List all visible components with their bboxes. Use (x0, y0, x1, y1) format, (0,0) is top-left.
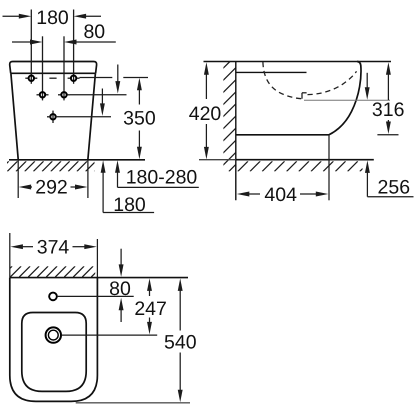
dim 316 bottom extension line (377, 134, 398, 136)
side wall hatch (120, 62, 351, 172)
plan right extension line (96, 239, 98, 278)
floor arrow for 180-280 (115, 160, 120, 173)
side body right curve (329, 62, 361, 135)
hole mid-left crosshair (37, 94, 41, 96)
plan drain outer circle (46, 327, 61, 342)
hole mid-right crosshair (58, 94, 62, 96)
side wall face line (235, 62, 237, 201)
front floor hatch (0, 161, 113, 171)
svg-text:292: 292 (35, 177, 68, 199)
svg-text:350: 350 (123, 108, 156, 130)
svg-text:180: 180 (36, 7, 69, 29)
front view floor line (9, 159, 145, 161)
dim 80 right arrow (64, 40, 77, 45)
side bowl hidden dashed curve (263, 62, 302, 99)
hole bottom crosshair (52, 111, 54, 123)
dim 350 bottom arrow (138, 131, 140, 151)
dim 420 bottom arrow (205, 124, 207, 150)
mid holes level line (70, 94, 127, 96)
svg-text:180-280: 180-280 (126, 167, 198, 189)
dim 292 left extension (17, 160, 19, 199)
svg-text:80: 80 (83, 21, 105, 43)
arrow to bowl depth line (366, 73, 368, 90)
hole top-left extension line (30, 10, 32, 84)
side rim lower line (236, 71, 307, 73)
svg-text:180: 180 (113, 194, 146, 216)
plan bottom extension line (76, 402, 190, 404)
front view rim bottom line (11, 72, 96, 74)
dim 540 bottom arrow (179, 353, 181, 393)
side floor line thin segment (199, 159, 236, 161)
plan tap hole circle (49, 293, 57, 301)
side bowl depth level line (304, 99, 390, 101)
dim 256 bracket line (367, 196, 413, 198)
hole top-right extension line (73, 10, 75, 84)
dim 350 top arrow (137, 78, 142, 91)
floor arrow for 180 (101, 160, 106, 173)
plan drain leader line (62, 334, 157, 336)
plan body top line (10, 277, 188, 279)
dim 180 left arrow (19, 14, 32, 19)
front view body left edge (11, 73, 18, 159)
dash between top holes (49, 77, 56, 79)
dim 404 left arrow (237, 192, 250, 197)
dim 374 left arrow (10, 244, 23, 249)
arrow to tap leader line (119, 298, 124, 311)
dim 292 right extension (87, 160, 89, 199)
hole mid-right extension line (63, 36, 65, 100)
dim 180 right line (84, 15, 102, 17)
front view body right edge (88, 73, 96, 159)
dim 80 right line (74, 41, 116, 43)
hole top-left crosshair (25, 77, 29, 79)
floor arrow for 256 (365, 160, 370, 173)
dim 247 top arrow (147, 278, 152, 291)
dim 404 right arrow (300, 193, 319, 195)
svg-text:404: 404 (264, 184, 297, 206)
top holes level line (80, 77, 113, 79)
plan left extension line (9, 233, 11, 278)
hole top-right crosshair (68, 77, 72, 79)
arrow to bottom hole line (101, 89, 103, 107)
hole mid-left extension line (42, 36, 44, 100)
svg-text:247: 247 (134, 298, 167, 320)
dim 180 left line (3, 15, 22, 17)
dim 180-280 bracket line (118, 186, 199, 188)
arrow to mid holes line (117, 65, 119, 85)
dim 180 bracket line (103, 212, 154, 214)
side right lower extension (328, 135, 330, 201)
dim 316 top arrow (386, 62, 391, 74)
dim 374 right arrow (73, 246, 88, 248)
plan wall hatch (1, 266, 111, 277)
arrow to plan top line (120, 249, 122, 267)
svg-text:420: 420 (189, 103, 222, 125)
dim 80 left line (12, 41, 33, 43)
dim 420 top arrow (204, 62, 209, 74)
plan body outline (10, 278, 98, 402)
front view rim outline (10, 62, 97, 74)
side floor hatch (226, 161, 383, 171)
dim 292 left arrow (19, 185, 32, 190)
svg-text:80: 80 (109, 278, 131, 300)
svg-text:374: 374 (37, 237, 70, 259)
plan drain inner circle (48, 330, 58, 340)
dim 80 left arrow (30, 40, 43, 45)
dim 180 right arrow (74, 14, 87, 19)
side body bottom line (236, 134, 329, 136)
svg-text:316: 316 (372, 99, 405, 121)
side floor line (236, 159, 374, 161)
svg-text:540: 540 (164, 332, 197, 354)
bottom hole level line (47, 116, 51, 118)
svg-text:256: 256 (378, 177, 411, 199)
side view top line (204, 61, 392, 63)
dim 292 right arrow (71, 186, 78, 188)
dim 247 bottom arrow (149, 318, 151, 326)
plan inner bowl outline (22, 313, 86, 392)
dim 540 top arrow (178, 278, 183, 291)
dim 316 bottom arrow (387, 120, 389, 125)
plan tap hole leader line (57, 295, 134, 297)
